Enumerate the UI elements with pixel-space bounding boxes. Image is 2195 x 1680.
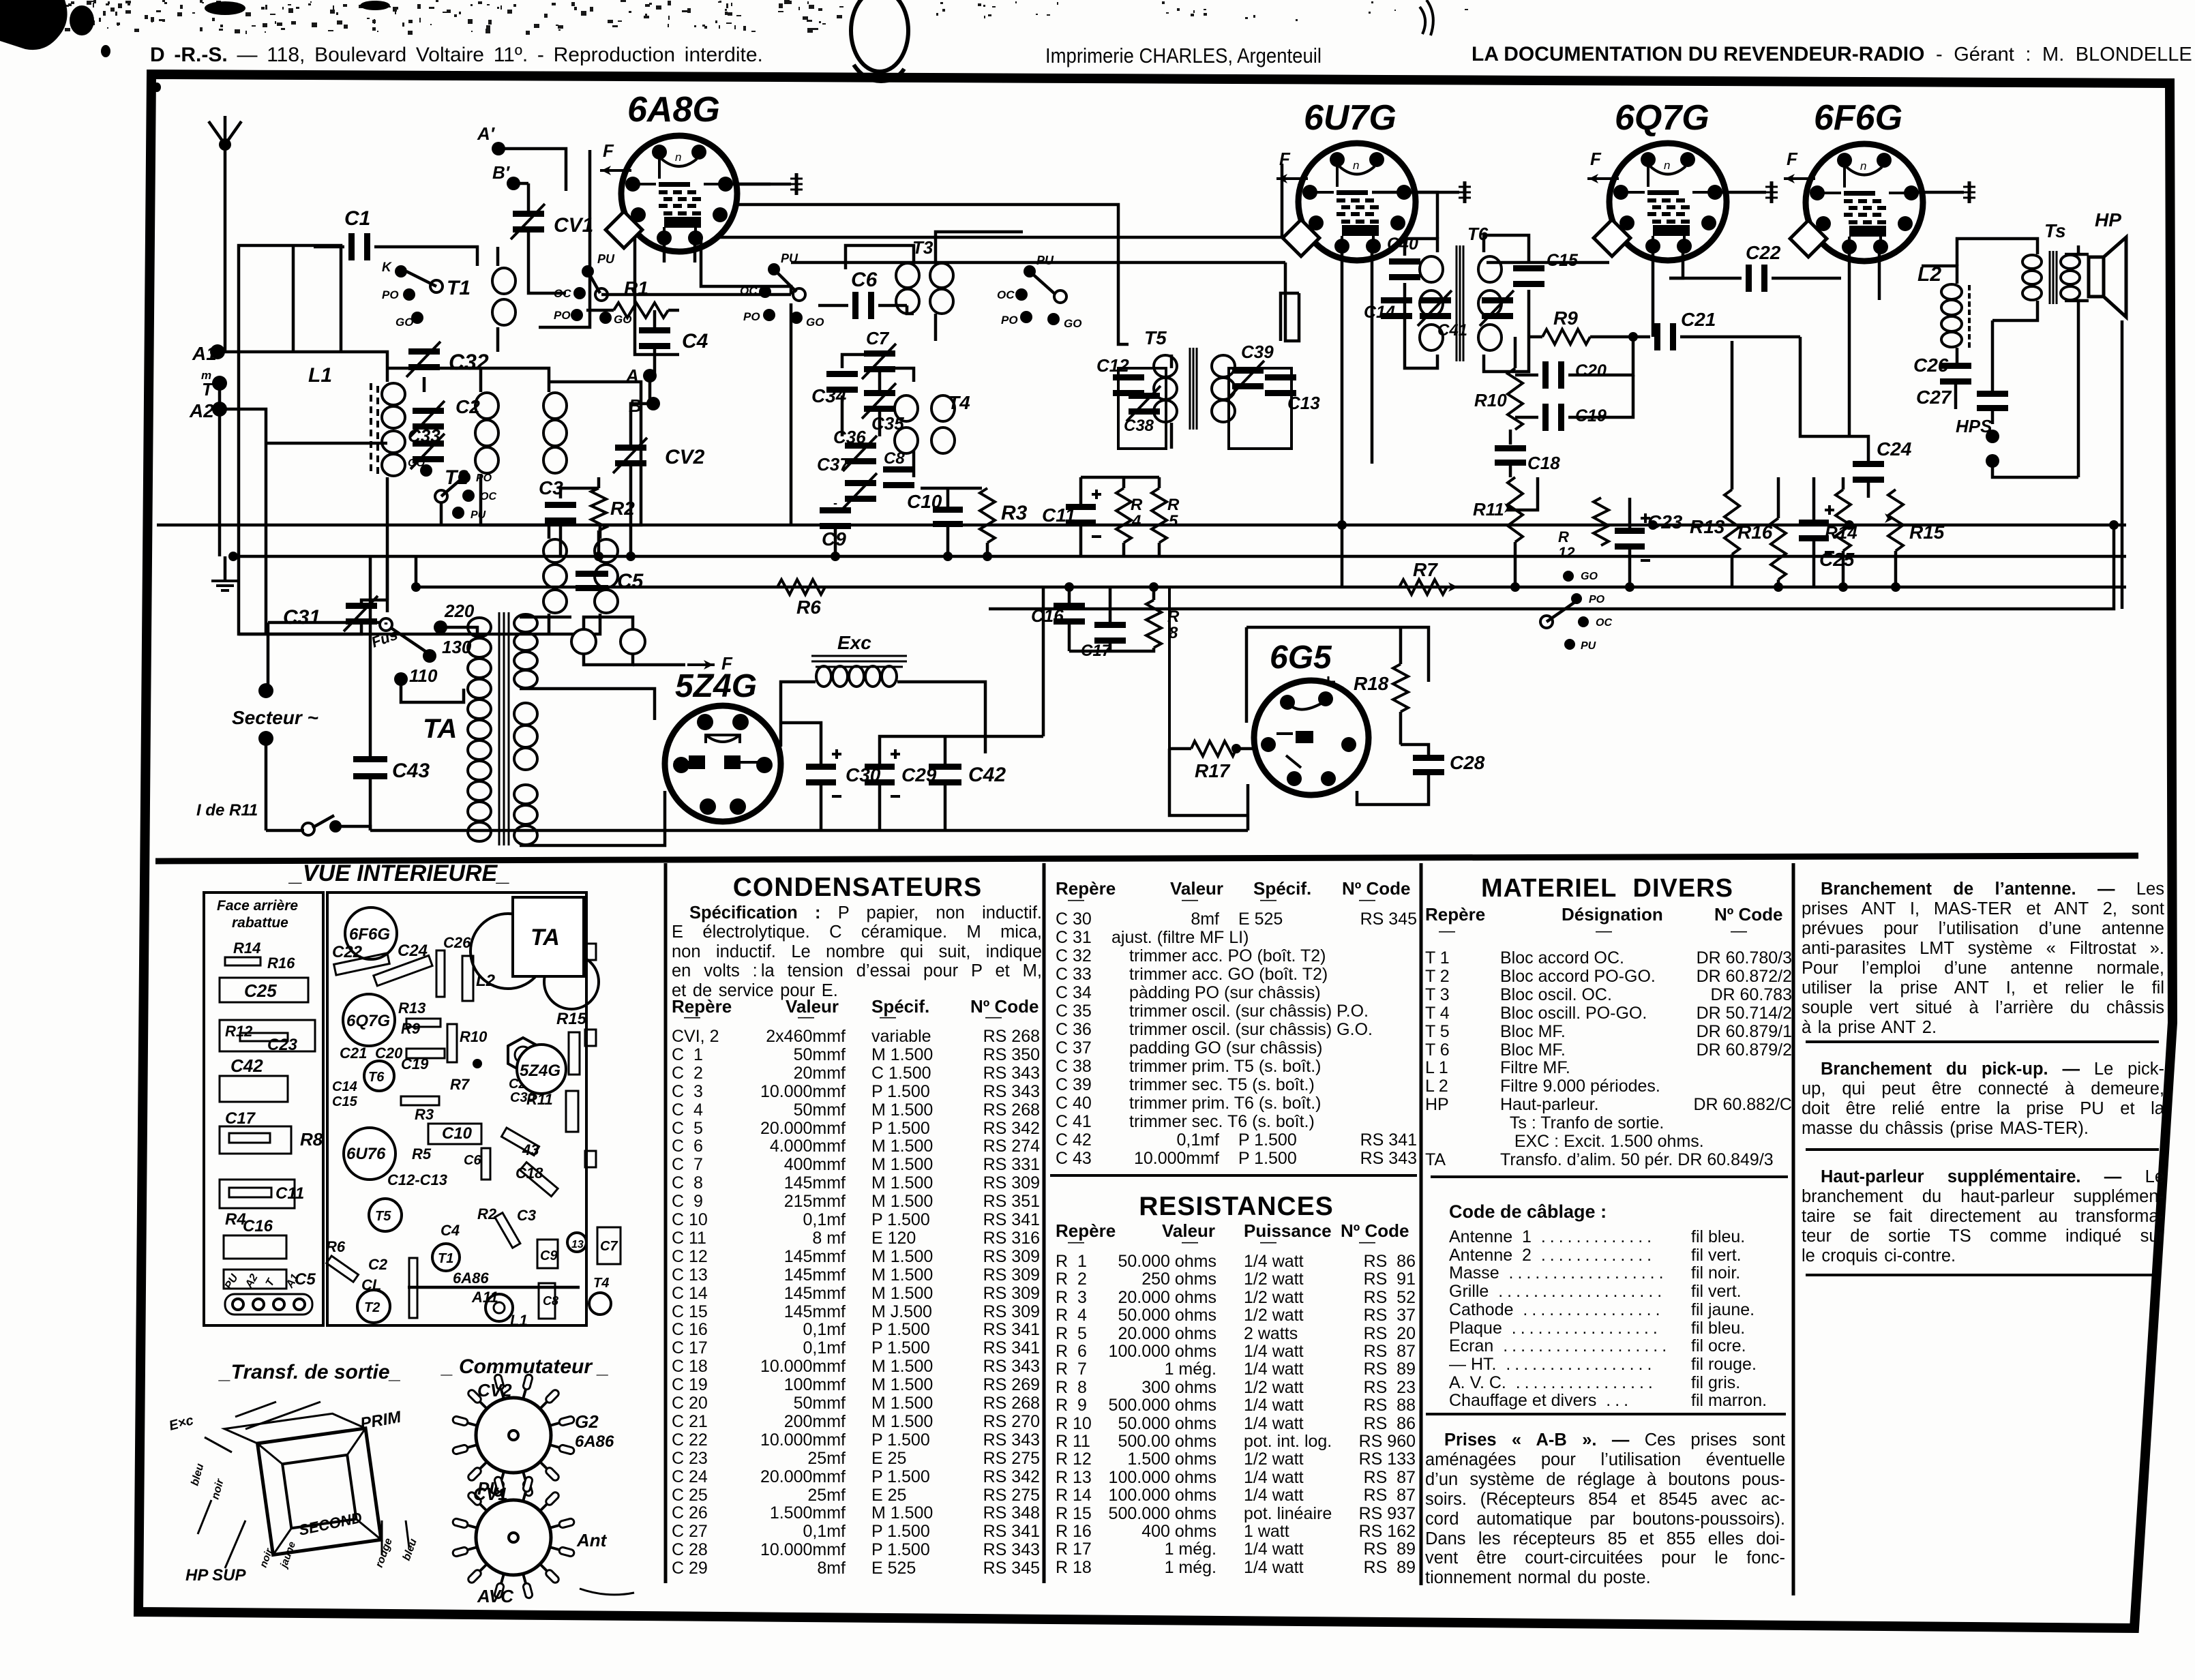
svg-text:6U7G: 6U7G bbox=[1304, 98, 1397, 138]
capacitor C26 bbox=[1940, 363, 1971, 369]
C26 part bbox=[436, 950, 445, 997]
code de cablage rows bbox=[1449, 1227, 1790, 1228]
coil T1 bbox=[492, 268, 516, 294]
wires around 6A8G bbox=[539, 150, 590, 327]
CONDENSATEURS table title bbox=[672, 873, 1043, 903]
capacitor C27 bbox=[1977, 391, 2008, 397]
svg-text:C39: C39 bbox=[1241, 342, 1274, 362]
svg-text:13: 13 bbox=[571, 1239, 584, 1250]
svg-text:C42: C42 bbox=[230, 1055, 263, 1076]
capacitor C42 bbox=[929, 764, 961, 770]
wafer switch CV1 bbox=[476, 1500, 551, 1575]
resistor R15 bbox=[1888, 490, 1903, 551]
svg-text:C2: C2 bbox=[368, 1256, 388, 1273]
L2 part bbox=[462, 956, 473, 1001]
coil T2 primary bbox=[475, 393, 498, 419]
wire drop from switch to bus bbox=[790, 303, 793, 525]
switch GO-PO-OC-PU near R12 bbox=[1563, 571, 1574, 582]
svg-text:R: R bbox=[1131, 496, 1143, 514]
svg-text:T6: T6 bbox=[368, 1070, 385, 1085]
6U7G ground cap right bbox=[1404, 191, 1459, 194]
TA primary winding bbox=[468, 618, 491, 637]
svg-text:Secteur ~: Secteur ~ bbox=[232, 707, 318, 728]
trimmer CV2 bbox=[615, 445, 646, 451]
svg-text:6G5: 6G5 bbox=[1270, 640, 1332, 676]
capacitor C17 bbox=[1094, 622, 1126, 628]
mains tap 130 bbox=[423, 649, 436, 663]
svg-text:C26: C26 bbox=[443, 934, 471, 951]
svg-text:C6: C6 bbox=[464, 1153, 481, 1168]
capacitor C40 bbox=[1389, 258, 1420, 265]
resistor R17 bbox=[1191, 741, 1236, 756]
MATERIEL DIVERS rows bbox=[1425, 948, 1792, 949]
terminal strip PU A2 T A1 bbox=[225, 1294, 312, 1315]
svg-text:bleu: bleu bbox=[401, 1537, 419, 1562]
svg-text:L1: L1 bbox=[510, 1312, 528, 1329]
capacitor C4 bbox=[639, 327, 670, 333]
svg-text:A′: A′ bbox=[477, 123, 496, 144]
column rule CONDENSATEURS/second column bbox=[1043, 863, 1046, 1583]
trimmer C41 bbox=[1420, 297, 1451, 303]
svg-text:GO: GO bbox=[1064, 317, 1081, 330]
svg-text:K: K bbox=[382, 260, 392, 275]
trimmer C31 bbox=[346, 603, 377, 609]
svg-text:R11: R11 bbox=[1473, 499, 1504, 520]
svg-text:R: R bbox=[1558, 528, 1569, 545]
antenna symbol bbox=[209, 121, 241, 145]
resistor R3 bbox=[980, 488, 995, 543]
switch cluster PU mid (left of C6) bbox=[768, 263, 780, 275]
svg-text:T2: T2 bbox=[364, 1300, 380, 1315]
svg-text:R2: R2 bbox=[477, 1205, 497, 1222]
T6 part bbox=[364, 1061, 394, 1091]
svg-text:Fus: Fus bbox=[369, 626, 400, 651]
MATERIEL DIVERS table title bbox=[1430, 874, 1785, 903]
6F6G ground cap right bbox=[1911, 191, 1964, 194]
C5 part bbox=[224, 1270, 286, 1289]
6Q7G ground cap right bbox=[1715, 191, 1766, 194]
svg-text:SECOND: SECOND bbox=[297, 1509, 363, 1539]
rule 1 right column bbox=[1806, 1040, 2159, 1043]
svg-text:R7: R7 bbox=[450, 1076, 471, 1093]
tube 6Q7G on chassis bbox=[343, 994, 395, 1046]
svg-text:T4: T4 bbox=[593, 1276, 609, 1291]
terminal secteur top bbox=[258, 683, 273, 698]
C6 part bbox=[481, 1148, 490, 1180]
switch cluster right of T3 bbox=[1024, 265, 1036, 277]
svg-text:C21: C21 bbox=[340, 1045, 367, 1062]
C11 R4 part bbox=[220, 1180, 295, 1208]
svg-text:F: F bbox=[1787, 149, 1798, 169]
svg-text:R6: R6 bbox=[796, 597, 821, 618]
svg-text:C12-C13: C12-C13 bbox=[387, 1171, 447, 1188]
svg-text:C17: C17 bbox=[225, 1109, 256, 1128]
svg-text:HP: HP bbox=[2095, 209, 2121, 230]
svg-text:HP SUP: HP SUP bbox=[185, 1566, 246, 1585]
6F6G wires bbox=[1848, 247, 1851, 436]
svg-text:R3: R3 bbox=[1001, 502, 1028, 524]
svg-text:OC: OC bbox=[1596, 617, 1612, 629]
trimmer C32 bbox=[408, 348, 440, 355]
svg-text:C31: C31 bbox=[283, 606, 320, 629]
output transformer sketch bbox=[224, 1409, 381, 1559]
wire 6A8G bottom pins down bbox=[663, 238, 666, 262]
svg-text:AVC: AVC bbox=[477, 1586, 514, 1606]
svg-text:rabattue: rabattue bbox=[232, 915, 288, 931]
svg-text:C8: C8 bbox=[543, 1294, 558, 1308]
svg-text:T4: T4 bbox=[948, 392, 970, 413]
svg-text:R1: R1 bbox=[624, 277, 648, 299]
power transformer TA core bbox=[498, 612, 501, 845]
C17 R8 part bbox=[220, 1126, 291, 1154]
terminal T bbox=[212, 376, 227, 391]
svg-text:PO: PO bbox=[1589, 594, 1605, 605]
ground bus bbox=[233, 555, 2126, 558]
svg-text:C7: C7 bbox=[866, 328, 890, 348]
trimmer C35 bbox=[864, 390, 895, 396]
resistor R5 bbox=[1152, 488, 1167, 543]
fingerprint smudge top-center bbox=[851, 0, 908, 72]
Branchement antenne paragraph bbox=[1802, 880, 2164, 899]
column rule second/MATERIEL DIVERS bbox=[1420, 863, 1423, 1585]
rows C30-C43 bbox=[1056, 909, 1417, 910]
svg-text:R5: R5 bbox=[412, 1145, 432, 1162]
resistor R2 bbox=[591, 488, 606, 530]
terminal Bprime bbox=[507, 177, 520, 190]
svg-text:130: 130 bbox=[442, 637, 472, 657]
svg-text:C22: C22 bbox=[1746, 242, 1781, 263]
resistor R4 bbox=[1116, 488, 1131, 543]
svg-text:Ant: Ant bbox=[576, 1530, 608, 1550]
C9 C7 13 parts bbox=[537, 1240, 558, 1268]
svg-text:C41: C41 bbox=[1437, 321, 1467, 340]
svg-text:R8: R8 bbox=[300, 1129, 323, 1150]
svg-text:C3: C3 bbox=[517, 1207, 536, 1224]
svg-text:A1: A1 bbox=[192, 343, 217, 364]
capacitor C23 electrolytic bbox=[1615, 528, 1645, 534]
terminal A2 bbox=[212, 402, 227, 417]
wire TS secondary down bbox=[2121, 320, 2124, 609]
tube 6U7G bbox=[1298, 143, 1416, 260]
svg-text:R3: R3 bbox=[415, 1106, 434, 1123]
header line left bbox=[150, 44, 763, 67]
6G5 box wires bbox=[1246, 627, 1429, 682]
resistor R9 bbox=[1542, 329, 1590, 344]
capacitor C14 bbox=[1381, 297, 1412, 303]
svg-text:_VUE INTERIEURE_: _VUE INTERIEURE_ bbox=[288, 860, 510, 886]
capacitor C43 bbox=[353, 756, 387, 762]
svg-text:R9: R9 bbox=[401, 1020, 421, 1037]
6U7G F arrow bbox=[1276, 177, 1308, 180]
coil L1 with iron core bbox=[382, 383, 405, 405]
svg-text:A11: A11 bbox=[471, 1289, 498, 1306]
coil T2 secondary bbox=[543, 393, 567, 419]
capacitor C25 electrolytic bbox=[1799, 520, 1829, 526]
svg-text:C15: C15 bbox=[332, 1094, 358, 1109]
svg-text:TA: TA bbox=[423, 714, 457, 744]
Prises A-B paragraph bbox=[1425, 1430, 1785, 1450]
svg-text:PO: PO bbox=[743, 310, 760, 323]
wire inside input block bbox=[266, 442, 387, 445]
Haut-parleur paragraph bbox=[1802, 1167, 2164, 1187]
R10 part bbox=[447, 1024, 457, 1062]
TA to rectifier wires bbox=[520, 616, 571, 619]
trimmer C39 bbox=[1232, 367, 1264, 374]
chassis right edge tabs bbox=[585, 944, 596, 960]
capacitor C30 electrolytic bbox=[806, 764, 836, 770]
svg-text:C20: C20 bbox=[1575, 361, 1607, 380]
svg-text:R9: R9 bbox=[1553, 307, 1578, 329]
capacitor C10 bbox=[933, 507, 963, 513]
svg-text:F: F bbox=[603, 140, 614, 161]
horizontal divider between schematic and tables bbox=[155, 856, 2138, 861]
fuse switch Fus bbox=[380, 618, 392, 631]
svg-text:L2: L2 bbox=[476, 972, 496, 990]
svg-text:C42: C42 bbox=[968, 764, 1006, 786]
svg-text:GO: GO bbox=[806, 316, 824, 329]
svg-text:R17: R17 bbox=[1195, 760, 1231, 781]
svg-text:C20: C20 bbox=[375, 1045, 403, 1062]
transformer T4 bbox=[895, 395, 918, 421]
terminal A1 bbox=[210, 344, 225, 359]
CONDENSATEURS rows C1-C29 bbox=[672, 1026, 1043, 1027]
svg-text:T3: T3 bbox=[912, 237, 934, 258]
capacitor C28 bbox=[1413, 755, 1444, 761]
header line center bbox=[1045, 44, 1322, 68]
T5 part bbox=[369, 1199, 402, 1231]
bus line y893 right half bbox=[989, 525, 2114, 609]
svg-text:n: n bbox=[1664, 159, 1670, 172]
resistor R8 bbox=[1146, 600, 1161, 648]
C16 part bbox=[224, 1235, 286, 1259]
resistor R12 pot bbox=[1594, 498, 1609, 545]
svg-text:PO: PO bbox=[554, 309, 571, 322]
transformer T3 bbox=[896, 263, 919, 288]
svg-text:GO: GO bbox=[395, 316, 413, 329]
svg-text:C43: C43 bbox=[392, 760, 430, 782]
TA on chassis bbox=[471, 914, 546, 989]
Branchement pick-up paragraph bbox=[1802, 1060, 2164, 1079]
RESISTANCES rows bbox=[1056, 1251, 1417, 1252]
resistor R14 bbox=[1836, 490, 1851, 551]
svg-text:C9: C9 bbox=[540, 1248, 558, 1263]
svg-text:GO: GO bbox=[408, 457, 425, 469]
svg-text:noir: noir bbox=[209, 1477, 226, 1501]
C2 slab on chassis bbox=[409, 1258, 417, 1318]
svg-text:T1: T1 bbox=[438, 1251, 453, 1266]
svg-text:C8: C8 bbox=[884, 449, 905, 468]
svg-text:C27: C27 bbox=[1916, 387, 1952, 408]
transformer T5 bbox=[1154, 355, 1177, 377]
svg-text:C10: C10 bbox=[907, 491, 942, 512]
wafer switch CV2 bbox=[476, 1398, 551, 1473]
mains tap 110 bbox=[394, 672, 408, 686]
long wire 6A8G to right bbox=[720, 164, 1282, 237]
svg-text:n: n bbox=[1860, 160, 1866, 172]
svg-text:C18: C18 bbox=[516, 1165, 543, 1182]
svg-text:I de R11: I de R11 bbox=[196, 801, 258, 820]
svg-text:R10: R10 bbox=[460, 1028, 488, 1045]
capacitor C15 bbox=[1513, 265, 1544, 271]
svg-text:R15: R15 bbox=[1909, 522, 1945, 543]
terminal Aprime bbox=[492, 142, 505, 155]
svg-text:C24: C24 bbox=[1877, 438, 1912, 460]
svg-text:C36: C36 bbox=[833, 427, 866, 447]
C42 part bbox=[220, 1076, 288, 1102]
R3 part bbox=[401, 1096, 439, 1105]
capacitor C20 bbox=[1542, 361, 1549, 389]
capacitor C9 bbox=[820, 507, 851, 513]
trimmer C38 bbox=[1129, 393, 1160, 399]
svg-text:OC: OC bbox=[480, 491, 496, 502]
svg-text:CV2: CV2 bbox=[665, 446, 705, 468]
node A bbox=[643, 369, 657, 382]
capacitor C29 electrolytic bbox=[865, 764, 895, 770]
trimmer CV1 bbox=[513, 211, 544, 217]
resistor R11 potentiometer bbox=[1508, 477, 1523, 542]
svg-text:5Z4G: 5Z4G bbox=[520, 1062, 561, 1080]
svg-text:_Transf. de sortie_: _Transf. de sortie_ bbox=[218, 1361, 401, 1383]
svg-text:R2: R2 bbox=[610, 498, 635, 519]
svg-text:TA: TA bbox=[531, 925, 560, 950]
svg-text:R: R bbox=[1167, 496, 1180, 514]
svg-text:C12: C12 bbox=[1096, 355, 1129, 376]
svg-text:_ Commutateur _: _ Commutateur _ bbox=[441, 1355, 609, 1378]
tube 5Z4G on chassis bbox=[517, 1045, 566, 1094]
switch GO-PO-OC-PU lower bbox=[420, 464, 432, 477]
svg-text:R15: R15 bbox=[556, 1010, 587, 1028]
svg-text:PU: PU bbox=[597, 252, 615, 266]
svg-text:6F6G: 6F6G bbox=[349, 925, 390, 944]
C22 C24 parts bbox=[334, 953, 390, 975]
capacitor C22 bbox=[1746, 265, 1752, 292]
C25 part bbox=[220, 978, 308, 1002]
svg-text:C11: C11 bbox=[1042, 505, 1075, 526]
svg-text:C1: C1 bbox=[344, 207, 370, 230]
rule above Prises bbox=[1426, 1413, 1786, 1415]
svg-text:C18: C18 bbox=[1527, 453, 1560, 473]
svg-text:T1: T1 bbox=[447, 277, 471, 299]
svg-text:C16: C16 bbox=[243, 1217, 273, 1235]
rule 3 right column bbox=[1806, 1274, 2159, 1276]
svg-text:T5: T5 bbox=[1144, 327, 1167, 348]
svg-text:C7: C7 bbox=[600, 1239, 618, 1254]
svg-text:T: T bbox=[264, 1276, 278, 1289]
6Q7G F arrow bbox=[1587, 177, 1619, 180]
band switch K-PO-GO (antenna) bbox=[395, 265, 407, 277]
svg-text:OC: OC bbox=[997, 288, 1015, 301]
switch PU-OC-PO-GO right of T1 bbox=[582, 265, 594, 277]
svg-text:R14: R14 bbox=[233, 940, 260, 957]
trimmer C36 bbox=[845, 442, 876, 449]
chassis main rect bbox=[327, 892, 586, 1325]
svg-text:Exc: Exc bbox=[837, 632, 871, 653]
second capacitors column header bbox=[1056, 877, 1417, 879]
T5 wires bbox=[1118, 368, 1166, 449]
svg-text:E×c: E×c bbox=[168, 1413, 196, 1434]
svg-text:C14: C14 bbox=[1364, 303, 1395, 322]
svg-text:6A86: 6A86 bbox=[575, 1432, 614, 1451]
svg-text:T5: T5 bbox=[375, 1209, 391, 1224]
svg-text:C4: C4 bbox=[441, 1222, 460, 1239]
svg-text:5: 5 bbox=[1169, 512, 1178, 530]
coil T2b secondary bbox=[595, 539, 618, 562]
coil L2 bbox=[1941, 284, 1962, 299]
capacitor C19 bbox=[1542, 404, 1549, 431]
svg-text:C4: C4 bbox=[682, 330, 708, 352]
transf leads bbox=[205, 1437, 232, 1452]
svg-text:R13: R13 bbox=[1690, 516, 1725, 537]
trimmer C33 bbox=[413, 440, 444, 447]
svg-text:C21: C21 bbox=[1681, 309, 1716, 330]
6A8G F arrow bbox=[600, 169, 631, 172]
svg-text:bleu: bleu bbox=[189, 1462, 206, 1487]
svg-text:110: 110 bbox=[409, 665, 438, 686]
CONDENSATEURS table header bbox=[672, 995, 1043, 997]
capacitor C13 bbox=[1265, 374, 1296, 380]
svg-text:C23: C23 bbox=[267, 1036, 298, 1054]
tube 6A8G bbox=[621, 136, 737, 252]
svg-text:PRIM: PRIM bbox=[359, 1408, 403, 1433]
svg-text:C26: C26 bbox=[1913, 355, 1949, 376]
tube 6G5 bbox=[1254, 680, 1369, 795]
svg-text:C25: C25 bbox=[244, 980, 277, 1001]
resistor R1 bbox=[614, 303, 668, 318]
svg-text:C5: C5 bbox=[617, 570, 644, 592]
svg-text:C19: C19 bbox=[401, 1055, 429, 1072]
svg-text:F: F bbox=[1279, 149, 1291, 169]
capacitor C12 bbox=[1113, 374, 1144, 380]
svg-text:Ts: Ts bbox=[2044, 220, 2066, 241]
terminal secteur bottom bbox=[258, 731, 273, 746]
svg-text:12: 12 bbox=[1558, 544, 1575, 561]
svg-text:PU: PU bbox=[1581, 640, 1596, 652]
wire from C42 up to bus bbox=[1042, 587, 1045, 736]
svg-text:R16: R16 bbox=[1737, 522, 1773, 543]
mains tap 220 bbox=[434, 620, 447, 634]
6Q7G wires bbox=[1652, 246, 1655, 337]
page scan noise speckles top band bbox=[1, 0, 1468, 35]
trimmer C2 bbox=[413, 408, 444, 414]
capacitor C16 bbox=[1054, 603, 1085, 609]
svg-text:F: F bbox=[1590, 149, 1602, 169]
column rule MATERIEL DIVERS/right texts bbox=[1792, 863, 1795, 1595]
svg-text:PU: PU bbox=[471, 509, 486, 521]
svg-text:PO: PO bbox=[1001, 314, 1018, 327]
capacitor C18 electrolytic bbox=[1495, 445, 1526, 451]
svg-text:C15: C15 bbox=[1547, 251, 1579, 270]
svg-text:PO: PO bbox=[476, 472, 492, 484]
rule under C43 bbox=[1050, 1174, 1417, 1177]
svg-text:n: n bbox=[675, 151, 681, 164]
svg-text:R18: R18 bbox=[1354, 673, 1389, 694]
RESISTANCES table title bbox=[1056, 1192, 1417, 1222]
svg-text:C14: C14 bbox=[332, 1079, 357, 1094]
svg-text:T: T bbox=[202, 379, 214, 400]
svg-text:GO: GO bbox=[1581, 571, 1598, 582]
tube 5Z4G bbox=[665, 706, 781, 822]
capacitor C34 bbox=[826, 371, 858, 377]
capacitor C24 bbox=[1853, 461, 1884, 467]
resistor R16 bbox=[1771, 518, 1786, 580]
Code de cablage block bbox=[1449, 1201, 1607, 1222]
svg-text:C38: C38 bbox=[1124, 417, 1154, 435]
wire antenna box top bbox=[239, 245, 436, 634]
svg-text:C28: C28 bbox=[1450, 752, 1485, 773]
6U7G wires down bbox=[1341, 246, 1344, 587]
bus line lower bbox=[416, 586, 2126, 589]
resistor R6 bbox=[777, 580, 825, 595]
